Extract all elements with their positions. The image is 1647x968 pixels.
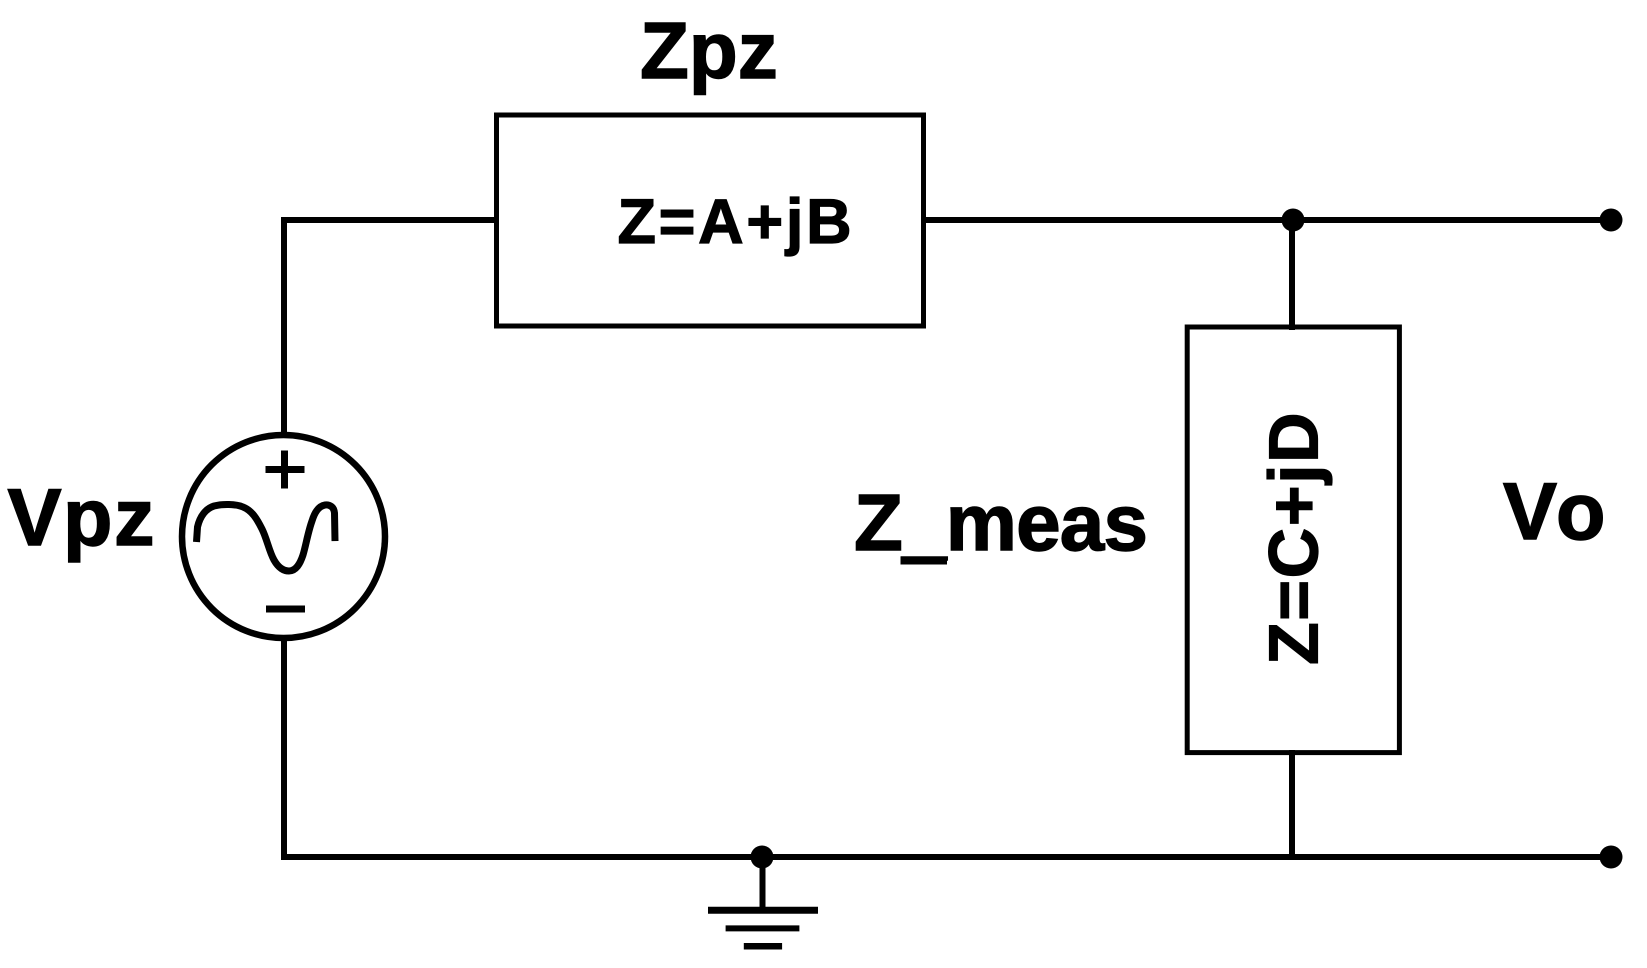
node dot output bottom terminal [1600,846,1623,869]
impedance Zpz box [497,115,924,326]
wire below source [281,639,287,857]
svg-text:Z_meas: Z_meas [854,478,1147,567]
sine wave [197,504,336,571]
ground [708,857,818,946]
minus sign [266,606,305,613]
node dot at ground junction [751,846,774,869]
wire from source top to Zpz box left [284,220,496,434]
underscore thickening of Z_meas [901,557,948,565]
wire Z_meas top [1289,220,1295,330]
impedance Z_meas box [1187,327,1399,753]
svg-text:Z=A+jB: Z=A+jB [618,187,855,257]
plus sign [266,451,305,489]
svg-text:Vpz: Vpz [8,473,157,563]
svg-text:Zpz: Zpz [640,6,778,95]
node dot output top terminal [1600,209,1623,232]
wire Z_meas bottom [1289,750,1295,857]
wire bottom rail [281,854,1611,860]
svg-text:Vo: Vo [1503,467,1611,557]
node dot at Z_meas top junction [1282,209,1305,232]
svg-text:Z=C+jD: Z=C+jD [1255,411,1333,665]
voltage source Vpz circle [182,435,385,638]
wire from Zpz box right to output terminal [924,217,1611,223]
